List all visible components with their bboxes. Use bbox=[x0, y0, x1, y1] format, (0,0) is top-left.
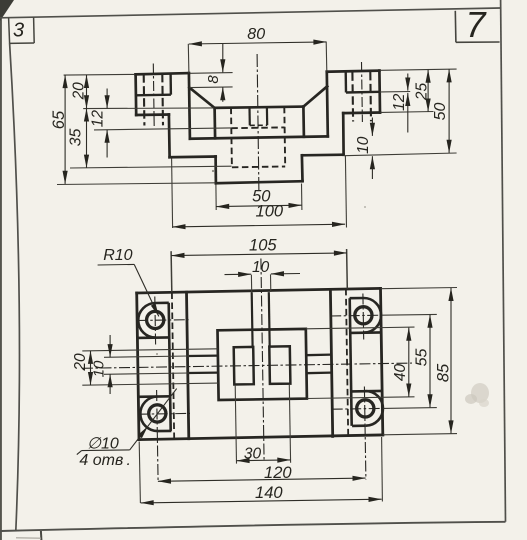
dim 50 right line bbox=[448, 69, 450, 153]
svg-text:7: 7 bbox=[465, 4, 487, 45]
ext: pocket bottom level left bbox=[70, 166, 232, 168]
plan hole bosses bbox=[137, 298, 383, 431]
scan artifact: title block stub bottom-left bbox=[40, 531, 43, 540]
plan hole circles bbox=[147, 307, 374, 422]
plan hidden lines of bosses bbox=[172, 289, 348, 439]
front: right inner vertical bbox=[327, 72, 328, 137]
front outline: right ear top edge bbox=[327, 71, 380, 72]
ext: dim 100 left vertical bbox=[172, 159, 173, 229]
svg-text:85: 85 bbox=[434, 363, 452, 382]
ext 140 left vertical bbox=[139, 442, 140, 504]
rib lower right bbox=[306, 371, 331, 374]
frame: right border bbox=[501, 0, 506, 522]
ext 85 upper bbox=[381, 288, 457, 289]
rib upper right bbox=[306, 353, 331, 356]
dim 30 line bbox=[237, 459, 291, 462]
scan smudge right of plan bbox=[471, 383, 489, 403]
ext 55 lower bbox=[384, 407, 437, 410]
dim 10 right lower arrow bbox=[371, 156, 373, 179]
label Ø10 4 holes with leader bbox=[77, 389, 177, 469]
svg-text:55: 55 bbox=[414, 349, 431, 367]
svg-text:10: 10 bbox=[355, 136, 372, 154]
pocket hidden left wall bbox=[230, 108, 233, 168]
dim 12 left lower arrow bbox=[106, 130, 108, 158]
right boss left wall bbox=[345, 71, 348, 92]
front: V-groove right slope bbox=[303, 86, 327, 106]
ext 40 upper bbox=[306, 327, 415, 329]
svg-text:25: 25 bbox=[413, 83, 430, 102]
front: V-groove right wall down to base top bbox=[302, 107, 305, 137]
right hole centerline bbox=[361, 62, 364, 122]
left hole hidden wall 2 bbox=[161, 74, 164, 125]
frame: top border bbox=[0, 8, 500, 18]
frame: left border (bowed) bbox=[10, 43, 20, 531]
boss bottom-right: tangents and R10 arc bbox=[352, 390, 383, 393]
boss top-left: top tangent and R10 arc bbox=[155, 301, 169, 304]
left hole centerline bbox=[152, 64, 155, 128]
dim 65 line bbox=[64, 75, 66, 184]
plan slot left wall above block bbox=[251, 292, 254, 347]
ext: ear top level for dim 8 bbox=[190, 72, 233, 75]
front outline: right ear bottom edge bbox=[343, 111, 380, 114]
ext: pedestal bottom level left bbox=[57, 183, 216, 185]
ext: pocket top level left bbox=[94, 128, 231, 130]
frame: bottom border (bowed) bbox=[0, 522, 506, 531]
dim 8 lower arrow bbox=[222, 87, 224, 102]
dim 10 left lower arrow bbox=[109, 374, 111, 394]
scan artifact: dark left edge strip bbox=[0, 0, 2, 540]
front: V-groove left slope bbox=[189, 88, 214, 108]
front: right ear counterbore bbox=[346, 62, 380, 122]
ext: dim 50 left vertical bbox=[215, 185, 217, 211]
plan horizontal centerline bbox=[82, 363, 412, 368]
plan left hidden dashed line bbox=[172, 293, 174, 440]
ext: ear top level left bbox=[64, 73, 135, 76]
paper specks bbox=[212, 170, 214, 172]
plan right band inner edge bbox=[330, 290, 332, 437]
plan inner right square boss bbox=[269, 346, 290, 384]
hole top-left bbox=[147, 311, 164, 328]
page number box "7" top-right bbox=[455, 11, 499, 43]
left hole hidden wall 1 bbox=[143, 74, 146, 125]
svg-text:4 отв .: 4 отв . bbox=[79, 452, 131, 469]
ext 10 top right vertical bbox=[270, 274, 272, 292]
hole bottom-left bbox=[149, 405, 166, 422]
left boss right wall bbox=[169, 74, 172, 95]
scan artifact: dark top-left corner bbox=[0, 0, 14, 21]
dim 12 right upper arrow bbox=[407, 74, 409, 91]
hole top-right bbox=[355, 307, 372, 324]
ext 140 right vertical bbox=[381, 437, 384, 502]
dim 25 line bbox=[427, 70, 429, 112]
pocket hidden right wall bbox=[283, 107, 286, 167]
front: hidden pocket in pedestal bbox=[231, 107, 285, 168]
dim 35 line bbox=[86, 108, 88, 167]
svg-text:20: 20 bbox=[70, 82, 87, 101]
dim 80 line bbox=[189, 42, 327, 44]
svg-text:35: 35 bbox=[68, 129, 85, 147]
plan outer right edge bbox=[381, 288, 383, 435]
svg-text:R10: R10 bbox=[103, 247, 132, 264]
svg-text:30: 30 bbox=[244, 445, 262, 462]
plan slot right wall above block bbox=[268, 292, 271, 347]
ext: V bottom level left bbox=[83, 107, 214, 110]
dim 12 right lower arrow bbox=[407, 93, 409, 133]
plan outer top edge bbox=[137, 288, 381, 293]
ext 40 lower bbox=[307, 397, 414, 399]
right hole hidden wall 2 bbox=[369, 72, 372, 121]
plan left band inner edge bbox=[187, 292, 189, 439]
front outline: base bottom left segment bbox=[170, 155, 216, 158]
plan outer left edge bbox=[137, 293, 139, 440]
front: slot walls below V-groove bbox=[250, 107, 268, 125]
svg-text:100: 100 bbox=[256, 203, 284, 221]
front: base top edge bbox=[190, 136, 328, 138]
dim 55 line bbox=[429, 315, 431, 408]
front outline: left ear left edge bbox=[134, 74, 137, 115]
ext: base bottom right bbox=[344, 153, 457, 156]
ext 105 left vertical bbox=[170, 251, 173, 292]
plan thin extension lines bbox=[82, 249, 457, 503]
svg-text:12: 12 bbox=[89, 110, 106, 128]
dim 10 right upper arrow bbox=[371, 118, 373, 136]
plan central pedestal block bbox=[218, 329, 307, 400]
plan dimension texts bbox=[72, 237, 452, 503]
dim 10 top right arrow bbox=[271, 273, 300, 275]
plan hole centerlines bbox=[82, 259, 412, 483]
front outline: right ear right edge bbox=[378, 71, 381, 113]
svg-text:105: 105 bbox=[249, 237, 277, 255]
variant box "3" top-left bbox=[9, 17, 35, 43]
ext: shelf level for dim 8 bbox=[190, 86, 233, 89]
slot hidden bottom bbox=[250, 124, 267, 126]
pocket hidden top bbox=[231, 126, 284, 129]
dim 20 left line bbox=[90, 351, 92, 385]
front outline: pedestal right edge bbox=[301, 155, 304, 181]
left band recess vertical (merges both left boss flats) bbox=[169, 303, 171, 431]
dim 120 line bbox=[158, 478, 366, 481]
ext 30 right vertical bbox=[289, 384, 290, 463]
dim 12 left upper arrow bbox=[106, 89, 108, 109]
svg-text:120: 120 bbox=[264, 464, 292, 482]
svg-text:20: 20 bbox=[72, 353, 89, 372]
svg-text:40: 40 bbox=[392, 364, 409, 382]
plan vertical centerline bbox=[261, 259, 264, 462]
svg-text:65: 65 bbox=[50, 110, 68, 129]
ext: ear top level right bbox=[380, 69, 456, 70]
ext 105 right vertical bbox=[346, 249, 349, 289]
plan right hidden dashed line bbox=[346, 289, 348, 436]
dim 140 line bbox=[141, 499, 382, 503]
rib lower left bbox=[189, 371, 218, 374]
front outline: right step up bbox=[342, 113, 345, 155]
dim 8 upper arrow bbox=[222, 44, 224, 72]
ext 20 lower bbox=[82, 383, 218, 385]
boss bottom-left: tangents and R10 arc bbox=[138, 395, 171, 398]
left counterbore bottom step bbox=[136, 93, 171, 96]
svg-text:10: 10 bbox=[90, 360, 107, 377]
front: V-groove left wall down to base top bbox=[213, 108, 216, 138]
ext: dim 80 right vertical bbox=[325, 42, 328, 72]
front outline: base bottom right segment bbox=[302, 153, 344, 156]
front outline: left ear top edge bbox=[136, 73, 189, 74]
right counterbore bottom step bbox=[346, 91, 380, 94]
front: main vertical centerline bbox=[257, 54, 259, 191]
ext 85 lower bbox=[383, 434, 457, 435]
rib upper left bbox=[189, 354, 218, 357]
dim 10 left upper arrow bbox=[109, 335, 111, 357]
svg-text:50: 50 bbox=[432, 103, 449, 121]
ext: dim 80 left vertical bbox=[187, 44, 190, 73]
ext 10 lower (rib) bbox=[104, 373, 189, 374]
svg-text:12: 12 bbox=[391, 93, 408, 111]
svg-text:10: 10 bbox=[252, 259, 270, 276]
pocket hidden bottom bbox=[232, 166, 285, 169]
front: left ear counterbore bbox=[136, 64, 171, 128]
svg-text:80: 80 bbox=[247, 26, 265, 43]
svg-text:8: 8 bbox=[205, 75, 222, 84]
dim 85 line bbox=[450, 288, 452, 434]
front view dimension texts bbox=[50, 26, 449, 221]
dim 10 top left arrow bbox=[225, 273, 252, 275]
plan inner left square boss bbox=[234, 347, 254, 385]
dim 20 line bbox=[86, 75, 88, 109]
ext 20 upper bbox=[82, 349, 217, 351]
front outline: pedestal left edge bbox=[214, 157, 217, 184]
front outline: left step down bbox=[168, 115, 171, 158]
ext 30 left vertical bbox=[235, 385, 236, 464]
dim 105 line bbox=[171, 253, 347, 256]
front: V-groove bottom bbox=[215, 107, 304, 108]
ext: ear bottom right bbox=[380, 111, 433, 114]
front outline: left ear bottom edge bbox=[136, 113, 169, 116]
right band recess vertical (merges both right boss flats) bbox=[350, 298, 352, 426]
ext 55 upper bbox=[382, 313, 437, 316]
ext 10 upper (rib) bbox=[104, 356, 189, 357]
front outline: pedestal bottom bbox=[216, 181, 303, 183]
ext: dim 100 right vertical bbox=[345, 156, 346, 228]
boss top-right: tangents and R10 arc bbox=[350, 297, 364, 300]
right hole hidden wall 1 bbox=[351, 72, 354, 121]
plan outer bottom edge bbox=[139, 435, 383, 440]
plan rib edges bbox=[189, 355, 331, 374]
label R10 with leader bbox=[98, 247, 159, 316]
dim 40 line bbox=[408, 328, 410, 397]
dim 100 line bbox=[172, 224, 345, 227]
ext: dim 50 right vertical bbox=[301, 184, 303, 211]
hole bottom-right bbox=[357, 400, 374, 417]
dim 50 bottom line bbox=[216, 205, 302, 206]
front: left inner vertical bbox=[189, 73, 190, 139]
ext: counterbore step right bbox=[380, 91, 410, 94]
svg-text:3: 3 bbox=[13, 20, 24, 42]
ext 10 top left vertical bbox=[250, 275, 252, 293]
svg-text:140: 140 bbox=[255, 484, 283, 502]
